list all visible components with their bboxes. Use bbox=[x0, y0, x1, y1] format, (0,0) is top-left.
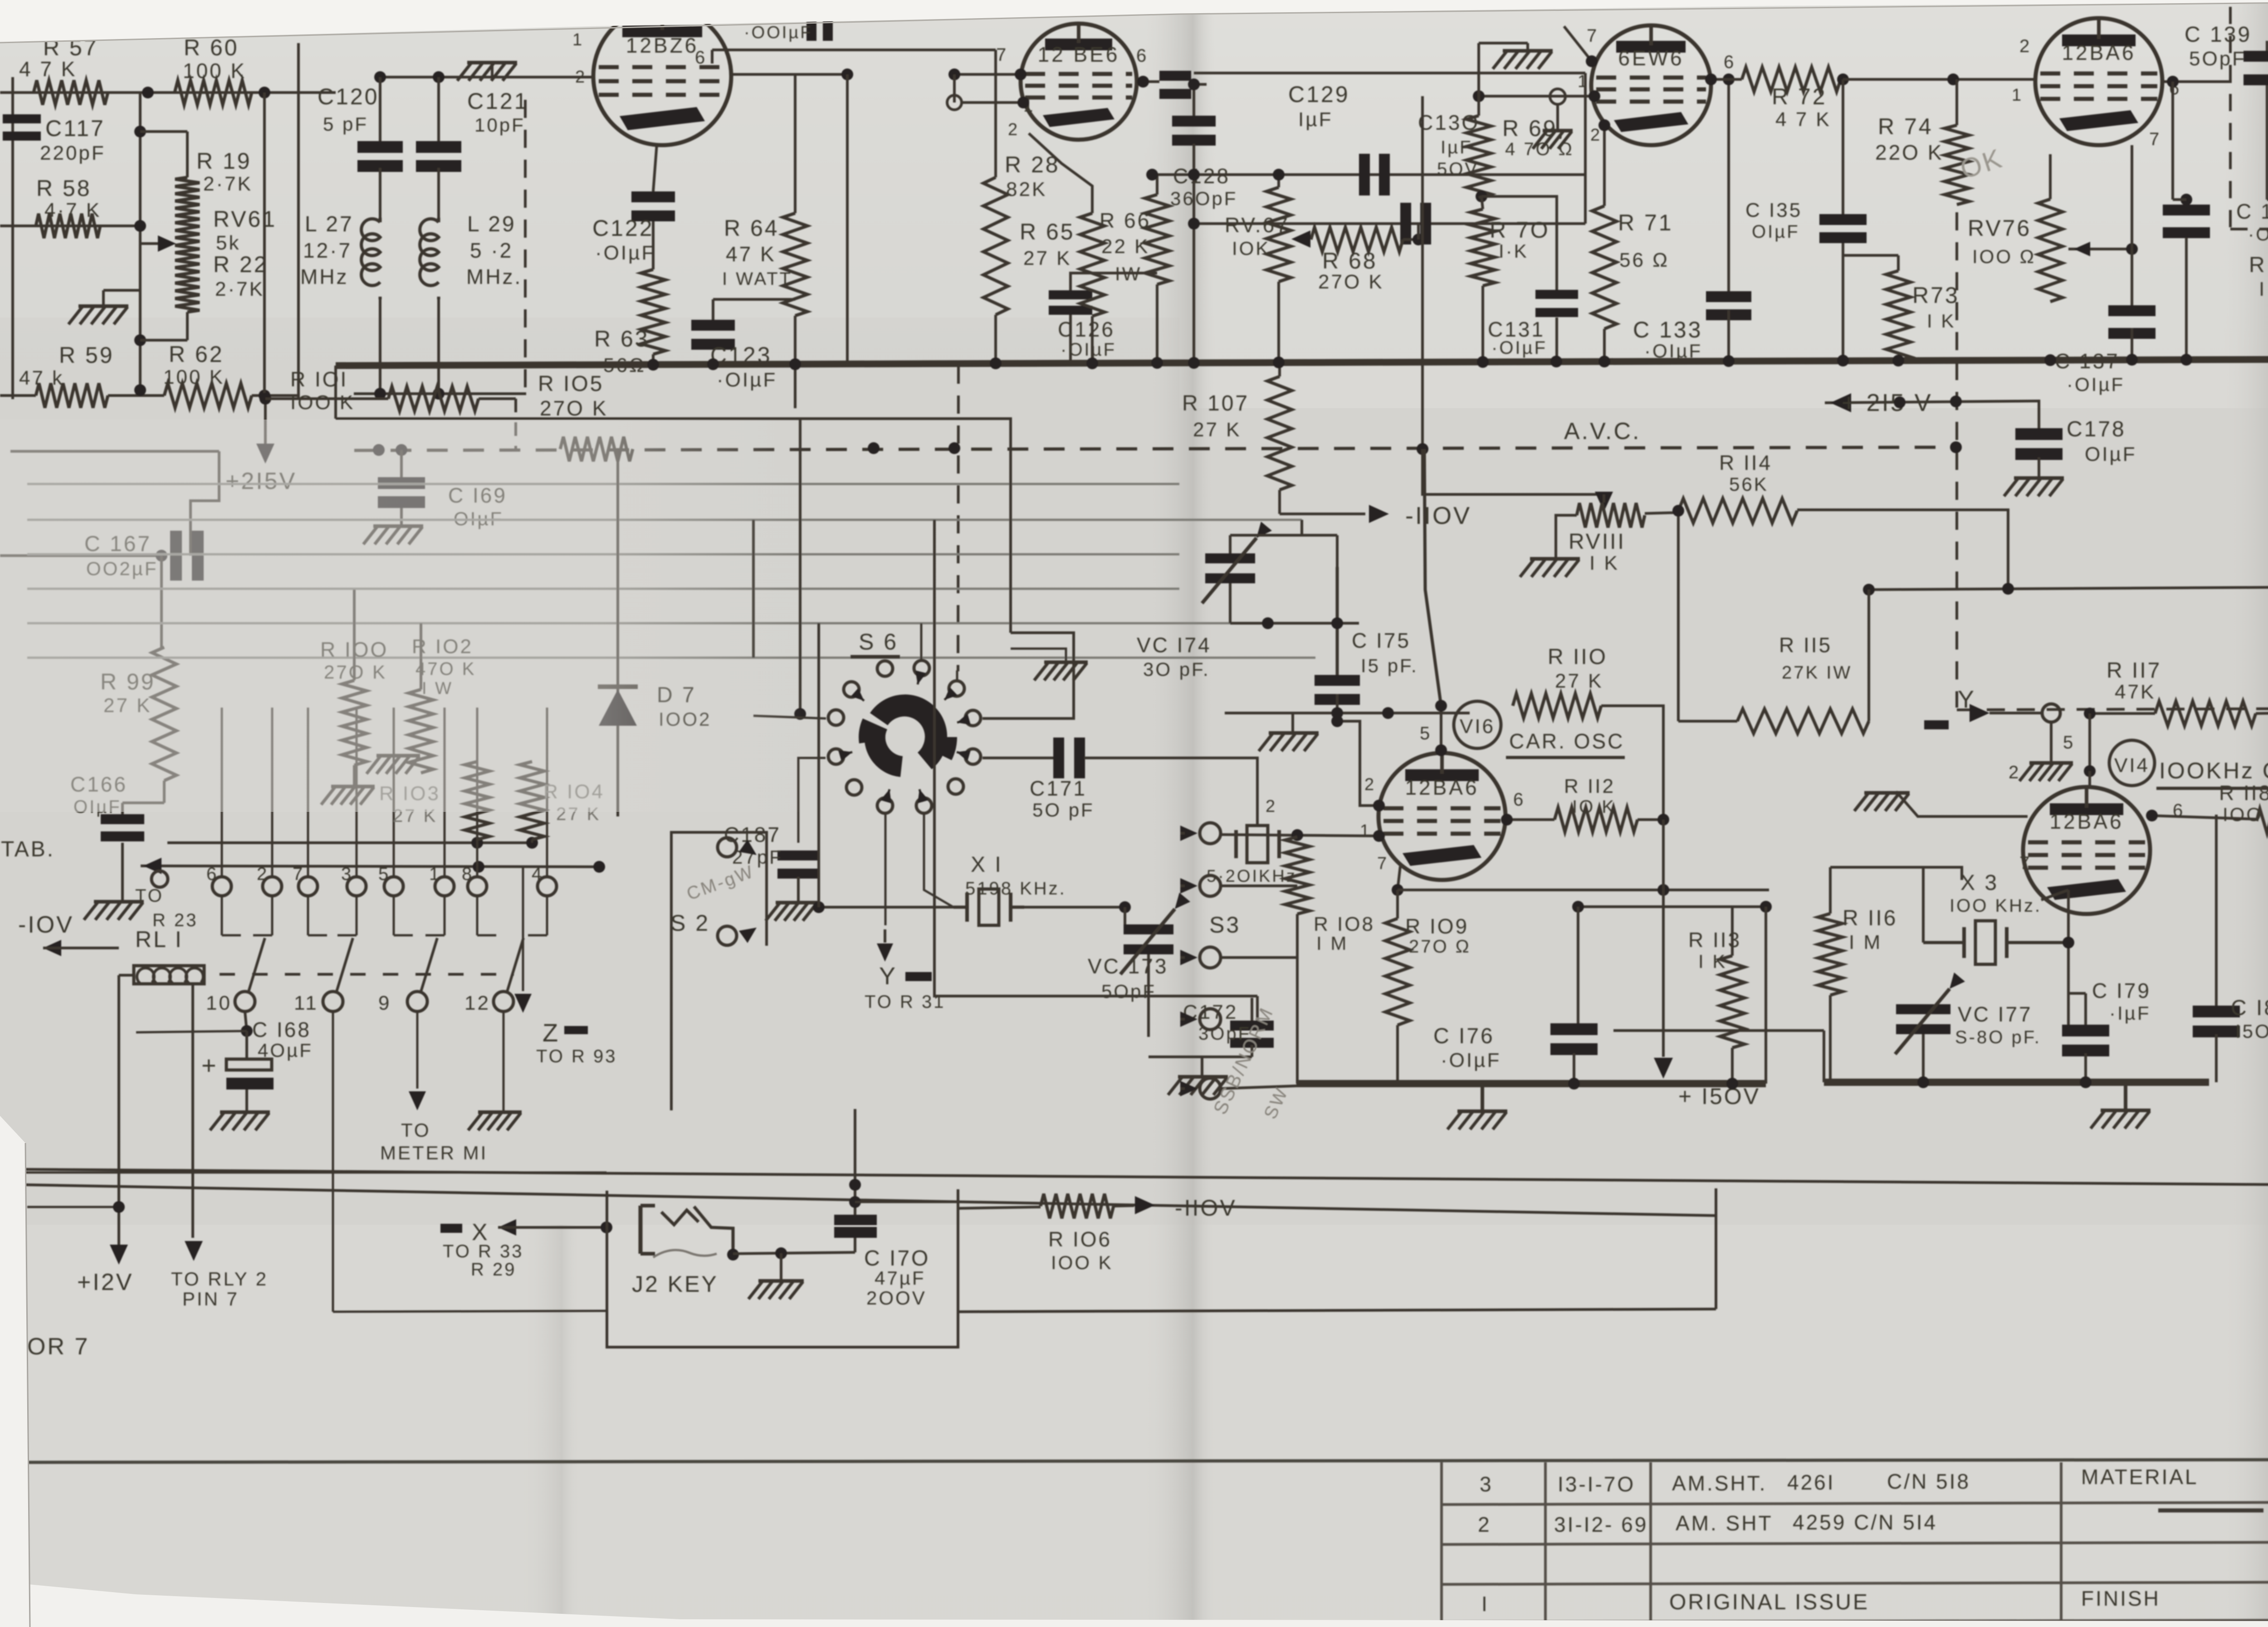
svg-text:7: 7 bbox=[1587, 26, 1598, 46]
resistor R74 bbox=[1875, 79, 1969, 205]
svg-text:-IOV: -IOV bbox=[18, 912, 74, 938]
svg-text:R 59: R 59 bbox=[59, 342, 114, 368]
label TO R23 bbox=[135, 858, 198, 930]
node r72 bbox=[1837, 73, 1849, 85]
crystal X1 bbox=[953, 853, 1066, 925]
svg-text:5: 5 bbox=[378, 864, 390, 884]
svg-text:IOO KHz.: IOO KHz. bbox=[1950, 896, 2042, 916]
svg-text:C117: C117 bbox=[45, 116, 105, 141]
svg-text:S-8O pF.: S-8O pF. bbox=[1955, 1027, 2041, 1047]
pencil OK mark bbox=[1956, 142, 2007, 185]
resistor R63 bbox=[594, 221, 665, 376]
svg-text:C/N 5I8: C/N 5I8 bbox=[1887, 1470, 1970, 1493]
svg-text:Y: Y bbox=[879, 963, 897, 990]
svg-text:36OpF: 36OpF bbox=[1170, 188, 1237, 209]
svg-text:12·7: 12·7 bbox=[303, 239, 352, 262]
svg-text:+: + bbox=[201, 1051, 218, 1080]
svg-text:3: 3 bbox=[1480, 1472, 1493, 1496]
svg-text:C I35: C I35 bbox=[1745, 199, 1802, 221]
label FINISH bbox=[2081, 1587, 2160, 1610]
wire r72 to tube bbox=[1843, 73, 2035, 85]
potentiometer RV76 bbox=[1968, 154, 2063, 302]
dashed r101 corner bbox=[479, 399, 516, 449]
wire x3260 top bbox=[1477, 43, 1480, 96]
wire c138 top bbox=[2173, 82, 2186, 200]
svg-text:R II7: R II7 bbox=[2107, 659, 2161, 683]
wire c139 bottom bbox=[2267, 198, 2268, 201]
variable capacitor VC174 bbox=[1137, 522, 1272, 680]
label Y right bbox=[1924, 686, 2041, 729]
svg-text:VI4: VI4 bbox=[2114, 754, 2150, 777]
svg-text:Y: Y bbox=[1958, 686, 1976, 713]
resistor R59 bbox=[19, 342, 114, 408]
svg-text:5 ·2: 5 ·2 bbox=[470, 239, 513, 262]
pin 6 label 12be6 bbox=[1136, 46, 1148, 66]
resistor R118 bbox=[2146, 781, 2268, 833]
switch S2 contacts bbox=[670, 838, 757, 945]
pin 2 label 12ba6 bbox=[2019, 36, 2031, 56]
capacitor C119 partial bbox=[744, 14, 833, 42]
pin 1 label bbox=[572, 30, 584, 49]
resistor R108 bbox=[1285, 837, 1375, 1084]
wire y1911 bbox=[141, 861, 605, 873]
label -10V bbox=[18, 912, 119, 956]
wire r112 down bbox=[1654, 820, 1760, 1109]
svg-text:·OIµF: ·OIµF bbox=[1061, 340, 1116, 360]
svg-text:TO R 33: TO R 33 bbox=[443, 1241, 523, 1261]
wire c129 right bbox=[1584, 73, 1587, 224]
svg-text:C I68: C I68 bbox=[252, 1018, 311, 1041]
switch S6 rotor lower tab bbox=[859, 718, 887, 743]
svg-text:AM. SHT: AM. SHT bbox=[1676, 1511, 1773, 1535]
switch S6 label bbox=[850, 629, 900, 657]
ground v14 bbox=[2091, 1086, 2151, 1129]
svg-text:1: 1 bbox=[1578, 72, 1589, 91]
svg-text:+ 2I5 V: + 2I5 V bbox=[1842, 389, 1933, 416]
label TO METER M1 bbox=[380, 1011, 488, 1163]
resistor R107 bbox=[1182, 366, 1292, 490]
capacitor C176 bbox=[1433, 907, 1598, 1084]
crystal X2 bbox=[1207, 797, 1297, 886]
svg-text:MHz: MHz bbox=[300, 265, 349, 288]
svg-text:I WATT: I WATT bbox=[722, 269, 792, 289]
svg-text:27O K: 27O K bbox=[1318, 271, 1384, 293]
svg-text:6: 6 bbox=[206, 864, 218, 884]
svg-text:R II3: R II3 bbox=[1688, 928, 1741, 952]
dashed frame c139 bbox=[2230, 7, 2268, 229]
title block top line bbox=[25, 1460, 2268, 1462]
capacitor C139 bbox=[2185, 23, 2268, 200]
svg-text:5: 5 bbox=[1420, 723, 1432, 743]
label Y to R31 bbox=[865, 929, 945, 1012]
pin 6 label 6ew6 bbox=[1724, 52, 1735, 72]
svg-text:-IIOV: -IIOV bbox=[1175, 1195, 1237, 1221]
svg-text:R IO5: R IO5 bbox=[538, 372, 604, 396]
wire v16 pin7 bbox=[1392, 866, 1403, 896]
resistor R114 bbox=[1645, 451, 1797, 523]
pencil cal note bbox=[684, 861, 757, 904]
svg-text:-IIOV: -IIOV bbox=[1405, 502, 1471, 529]
title block row line 4 bbox=[1442, 1582, 2268, 1584]
capacitor C135 bbox=[1745, 79, 1867, 361]
svg-text:·OOIµF: ·OOIµF bbox=[744, 23, 812, 42]
resistor R71 bbox=[1592, 119, 1673, 363]
resistor R28 bbox=[983, 50, 1060, 366]
bus junction dots bbox=[647, 353, 2268, 371]
ground c172 bbox=[1149, 1057, 1252, 1095]
wire left vertical bbox=[11, 77, 14, 399]
svg-text:12BA6: 12BA6 bbox=[1405, 776, 1479, 799]
diode D7 bbox=[598, 683, 711, 730]
wire y872 bbox=[0, 384, 299, 401]
capacitor C123 bbox=[691, 299, 795, 391]
svg-text:220pF: 220pF bbox=[40, 142, 106, 164]
node junction R57-R60 bbox=[142, 87, 270, 98]
resistor R68 bbox=[1311, 227, 1403, 293]
title block bottom line bbox=[1442, 1620, 2268, 1622]
wire v14 pin5 bbox=[2084, 713, 2096, 788]
contact 12 ground bbox=[468, 1011, 522, 1130]
wire x658 screen bbox=[297, 43, 300, 396]
resistor R64 bbox=[722, 74, 807, 408]
svg-text:IOO K: IOO K bbox=[1051, 1252, 1113, 1273]
svg-text:I K: I K bbox=[1927, 310, 1955, 332]
title block col 2 bbox=[1544, 1462, 1547, 1622]
svg-text:I M: I M bbox=[1849, 931, 1882, 953]
svg-text:I5O pF.: I5O pF. bbox=[2235, 1021, 2268, 1042]
inductor L27 12.7MHz bbox=[300, 168, 380, 394]
svg-text:12 BE6: 12 BE6 bbox=[1038, 43, 1120, 66]
capacitor C187 bbox=[724, 823, 819, 921]
svg-text:3O pF.: 3O pF. bbox=[1143, 659, 1210, 680]
svg-text:A.V.C.: A.V.C. bbox=[1564, 418, 1641, 445]
svg-text:47K: 47K bbox=[2115, 681, 2156, 703]
resistor R100 bbox=[320, 590, 388, 805]
material blank line bbox=[2158, 1510, 2268, 1510]
svg-text:·OIµF: ·OIµF bbox=[595, 242, 655, 264]
capacitor C137 bbox=[2055, 305, 2156, 395]
wire top row bbox=[0, 91, 336, 94]
svg-text:MATERIAL: MATERIAL bbox=[2081, 1465, 2199, 1489]
capacitor C172 bbox=[1183, 998, 1274, 1057]
resistor R57 bbox=[19, 35, 108, 105]
wire rl1 right bbox=[171, 983, 268, 1309]
svg-text:C I79: C I79 bbox=[2092, 979, 2151, 1002]
svg-text:22 K: 22 K bbox=[1101, 235, 1150, 258]
wire R19 link bbox=[140, 132, 187, 177]
svg-text:RV61: RV61 bbox=[213, 206, 277, 232]
resistor R72 bbox=[1705, 67, 1841, 131]
svg-text:4·7 K: 4·7 K bbox=[44, 199, 101, 221]
wire y170 tube feed bbox=[374, 71, 594, 83]
boundary wire lower bbox=[25, 1185, 1716, 1216]
svg-text:IµF: IµF bbox=[1298, 108, 1333, 131]
capacitor C127 series bbox=[1159, 71, 1191, 99]
svg-text:100 K: 100 K bbox=[183, 59, 246, 83]
wire rv111 feed bbox=[1422, 449, 1604, 494]
wire x1805 bbox=[817, 623, 820, 907]
svg-text:C121: C121 bbox=[467, 88, 529, 114]
svg-text:C I75: C I75 bbox=[1352, 629, 1411, 652]
svg-text:27O K: 27O K bbox=[540, 396, 608, 420]
svg-text:R 107: R 107 bbox=[1182, 391, 1249, 415]
svg-text:R 60: R 60 bbox=[184, 35, 239, 60]
svg-text:·IµF: ·IµF bbox=[2109, 1002, 2151, 1024]
tube V 12BZ6 bbox=[593, 7, 731, 145]
resistor R117 bbox=[2084, 659, 2268, 726]
wire s6 c-164 bbox=[753, 716, 826, 718]
capacitor C131 bbox=[1481, 196, 1578, 363]
wire grid1 bbox=[948, 68, 1026, 80]
svg-text:·OIµF: ·OIµF bbox=[1491, 338, 1547, 358]
svg-text:2: 2 bbox=[1266, 797, 1277, 816]
potentiometer RV111 bbox=[1569, 492, 1645, 574]
wire x3 right bbox=[2063, 890, 2074, 1031]
wire r114 right bbox=[1797, 510, 2008, 589]
svg-text:11: 11 bbox=[294, 992, 318, 1014]
rv67 wiper arrow bbox=[1291, 230, 1310, 248]
svg-text:R 22: R 22 bbox=[213, 252, 269, 277]
pin 7 label 6ew6 bbox=[1587, 26, 1598, 46]
relay contact lower terminals bbox=[206, 992, 513, 1014]
rail c130 bbox=[1188, 218, 1585, 230]
svg-text:R 72: R 72 bbox=[1772, 84, 1827, 109]
svg-text:R 65: R 65 bbox=[1020, 219, 1075, 244]
wire top c129 cell bbox=[1194, 72, 1585, 74]
pin 1 label v16 bbox=[1360, 821, 1371, 840]
svg-text:2: 2 bbox=[1008, 120, 1019, 139]
resistor R19 bbox=[175, 148, 253, 221]
svg-text:C171: C171 bbox=[1030, 777, 1087, 800]
svg-text:·OIµF: ·OIµF bbox=[717, 369, 777, 391]
label Z TO R93 bbox=[514, 867, 617, 1066]
wire x1868 to bus bbox=[846, 74, 849, 363]
label 100KHz OSC bbox=[2156, 758, 2268, 788]
svg-text:OIµF: OIµF bbox=[1752, 222, 1800, 242]
svg-text:R IO6: R IO6 bbox=[1048, 1227, 1112, 1251]
svg-text:S 2: S 2 bbox=[670, 910, 710, 936]
wire y1572 cell bbox=[1225, 707, 1470, 719]
capacitor C128 bbox=[1170, 78, 1237, 366]
svg-text:R IO8: R IO8 bbox=[1314, 913, 1375, 935]
svg-text:12BA6: 12BA6 bbox=[2062, 41, 2136, 64]
svg-text:TO: TO bbox=[135, 886, 164, 906]
svg-text:1: 1 bbox=[572, 30, 584, 49]
switch S6 rotor upper bbox=[870, 694, 947, 769]
wire r107 to -110v bbox=[1280, 490, 1471, 529]
svg-text:VI6: VI6 bbox=[1460, 715, 1495, 738]
relay linkage dashed bbox=[220, 973, 514, 976]
wire s6 c74 bbox=[924, 815, 953, 907]
wire v16 pin1 bbox=[1221, 829, 1385, 842]
label TAB bbox=[1, 837, 55, 861]
rail c129 bbox=[1146, 169, 1585, 181]
resistor R73 bbox=[1886, 255, 1960, 361]
wire v16 pin5 bbox=[1435, 700, 1447, 756]
wire pin7 6ew6 bbox=[1564, 26, 1598, 67]
svg-text:C I8O: C I8O bbox=[2231, 996, 2268, 1020]
svg-text:2: 2 bbox=[2009, 762, 2020, 782]
ground y circle bbox=[2019, 704, 2073, 781]
svg-text:5O pF: 5O pF bbox=[1032, 799, 1095, 821]
capacitor C129 bbox=[1288, 82, 1390, 195]
pin 1 label 12be6 bbox=[1023, 97, 1035, 116]
heavy gnd bus v14 bbox=[1824, 1076, 2209, 1088]
svg-text:R 29: R 29 bbox=[471, 1260, 517, 1280]
wire pin7 12ba6 bbox=[2131, 145, 2133, 305]
tube V 12BE6 bbox=[1021, 24, 1137, 140]
svg-text:27 K: 27 K bbox=[1193, 419, 1242, 441]
svg-text:1: 1 bbox=[2012, 86, 2023, 105]
svg-text:4: 4 bbox=[532, 864, 543, 884]
svg-text:R II8: R II8 bbox=[2219, 781, 2268, 805]
resistor R102 bbox=[409, 623, 476, 773]
svg-text:I M: I M bbox=[1316, 933, 1348, 954]
svg-text:R 77: R 77 bbox=[2249, 253, 2268, 277]
dashed x2115 bbox=[958, 366, 958, 671]
svg-text:R73: R73 bbox=[1912, 283, 1960, 308]
svg-text:R 19: R 19 bbox=[196, 148, 252, 174]
svg-text:C178: C178 bbox=[2067, 417, 2126, 441]
wire s6 c164 bbox=[798, 758, 826, 843]
svg-text:IOO K: IOO K bbox=[2223, 804, 2268, 825]
svg-text:IO K: IO K bbox=[1572, 797, 1616, 817]
wire s6 to c171 bbox=[982, 757, 1053, 759]
svg-text:5198 KHz.: 5198 KHz. bbox=[965, 879, 1066, 899]
pin 2 label v16 bbox=[1364, 775, 1376, 794]
svg-text:6: 6 bbox=[1136, 46, 1148, 66]
svg-text:ORIGINAL ISSUE: ORIGINAL ISSUE bbox=[1669, 1590, 1869, 1614]
capacitor C178 bbox=[1825, 389, 2137, 496]
svg-text:5: 5 bbox=[2063, 733, 2075, 752]
svg-text:47µF: 47µF bbox=[875, 1267, 926, 1289]
svg-text:7: 7 bbox=[996, 45, 1008, 65]
svg-text:7: 7 bbox=[2019, 853, 2031, 873]
wire y1300 bbox=[1863, 583, 2268, 596]
wire pin6 out bbox=[1137, 76, 1159, 88]
wire x1661 bbox=[752, 520, 755, 658]
switch S6 contacts bbox=[828, 660, 981, 813]
wire s3 row3 bbox=[1220, 956, 1297, 959]
resistor R103b bbox=[379, 762, 489, 877]
wire y2272 bbox=[1613, 1031, 1824, 1082]
resistor R101 bbox=[259, 367, 479, 414]
capacitor C122 bbox=[592, 144, 675, 264]
boundary wire upper bbox=[25, 1169, 2268, 1185]
switch S6 rotor tab bbox=[923, 737, 957, 760]
capacitor C133 bbox=[1633, 73, 1751, 363]
svg-text:56 Ω: 56 Ω bbox=[1619, 249, 1669, 271]
pin 2 label bbox=[575, 68, 587, 87]
svg-text:R IOI: R IOI bbox=[290, 367, 348, 391]
wire x1764 bbox=[794, 419, 806, 720]
svg-text:100 K: 100 K bbox=[163, 366, 225, 388]
svg-text:OR 7: OR 7 bbox=[27, 1334, 89, 1360]
dashed x4314 bbox=[1955, 212, 1958, 708]
inductor L29 5.2MHz bbox=[420, 168, 523, 394]
svg-text:I3-I-7O: I3-I-7O bbox=[1558, 1472, 1635, 1496]
jack J2 bbox=[632, 1206, 739, 1297]
tube V 12BA6 bbox=[2035, 18, 2162, 145]
svg-text:S 6: S 6 bbox=[859, 629, 898, 655]
svg-text:R 66: R 66 bbox=[1100, 209, 1151, 232]
svg-text:6: 6 bbox=[695, 48, 707, 68]
label -110V mid bbox=[1114, 1195, 1237, 1221]
pin 2 label 6ew6 bbox=[1590, 126, 1602, 145]
ground v16 bbox=[1447, 1087, 1507, 1129]
svg-text:CAR. OSC: CAR. OSC bbox=[1509, 729, 1624, 753]
pin 5 label v14 bbox=[2063, 733, 2075, 752]
label MATERIAL bbox=[2081, 1465, 2199, 1489]
ground vc cell bbox=[1259, 713, 1319, 751]
svg-text:R II4: R II4 bbox=[1719, 451, 1772, 474]
photocopy wire band bbox=[27, 484, 1315, 658]
pin 5 label v16 bbox=[1420, 723, 1432, 743]
svg-text:6: 6 bbox=[1724, 52, 1735, 72]
pin 6 label bbox=[695, 48, 707, 68]
svg-text:+ I5OV: + I5OV bbox=[1678, 1084, 1760, 1109]
title block row line 2 bbox=[1442, 1502, 2268, 1505]
pin 7 label v16 bbox=[1377, 854, 1388, 873]
svg-text:C 133: C 133 bbox=[1633, 317, 1702, 342]
wire x583 bbox=[263, 93, 266, 396]
svg-text:12: 12 bbox=[464, 992, 490, 1014]
svg-text:3I-I2- 69: 3I-I2- 69 bbox=[1554, 1513, 1648, 1536]
potentiometer RV67 bbox=[1225, 169, 1291, 366]
svg-text:R 64: R 64 bbox=[724, 215, 779, 241]
wire r116 top bbox=[1830, 867, 2023, 880]
pin 7 label v14 bbox=[2019, 853, 2031, 873]
svg-text:2OOV: 2OOV bbox=[866, 1287, 927, 1309]
svg-text:TO R 93: TO R 93 bbox=[536, 1046, 617, 1066]
svg-text:TAB.: TAB. bbox=[1, 837, 55, 861]
wire v16 pin2 bbox=[1331, 715, 1385, 811]
svg-text:1: 1 bbox=[429, 864, 441, 884]
svg-text:7: 7 bbox=[1377, 854, 1388, 873]
wire v14 pin2 gnd bbox=[1854, 792, 2028, 816]
capacitor C166 bbox=[70, 772, 164, 841]
wire y110 top bbox=[712, 50, 996, 64]
svg-text:C120: C120 bbox=[318, 84, 379, 109]
bus HT line bbox=[336, 359, 2268, 366]
svg-text:27O Ω: 27O Ω bbox=[1409, 937, 1471, 957]
wire pin2 r65 bbox=[1029, 133, 1092, 213]
capacitor C117 bbox=[3, 114, 106, 164]
wire R22 bottom bbox=[140, 312, 187, 340]
wire y1999 bbox=[1572, 901, 1772, 913]
wire s6 c-76 bbox=[920, 623, 923, 660]
label X to R33 bbox=[440, 1219, 612, 1280]
crystal X3 bbox=[1923, 871, 2068, 964]
resistor R109 bbox=[1385, 890, 1471, 1084]
switch S6 rotor lower bbox=[864, 733, 903, 777]
svg-text:5OpF: 5OpF bbox=[2189, 48, 2246, 70]
pencil squiggle j2 bbox=[653, 1250, 717, 1257]
svg-text:R IO9: R IO9 bbox=[1405, 914, 1469, 938]
wire vc174 top bbox=[1230, 520, 1302, 535]
svg-text:27K IW: 27K IW bbox=[1782, 663, 1852, 683]
relay RL1 coil bbox=[134, 927, 204, 984]
wire pin1 circle bbox=[947, 74, 1029, 110]
svg-text:1: 1 bbox=[1360, 821, 1371, 840]
J2 box bbox=[607, 1188, 1716, 1347]
wire x3893 bbox=[1765, 907, 1767, 1084]
title block col material bbox=[2060, 1462, 2063, 1622]
svg-text:4259 C/N 5I4: 4259 C/N 5I4 bbox=[1793, 1510, 1937, 1534]
svg-text:10pF: 10pF bbox=[474, 114, 525, 136]
svg-text:IOO K: IOO K bbox=[290, 391, 355, 414]
svg-text:3: 3 bbox=[341, 864, 353, 884]
